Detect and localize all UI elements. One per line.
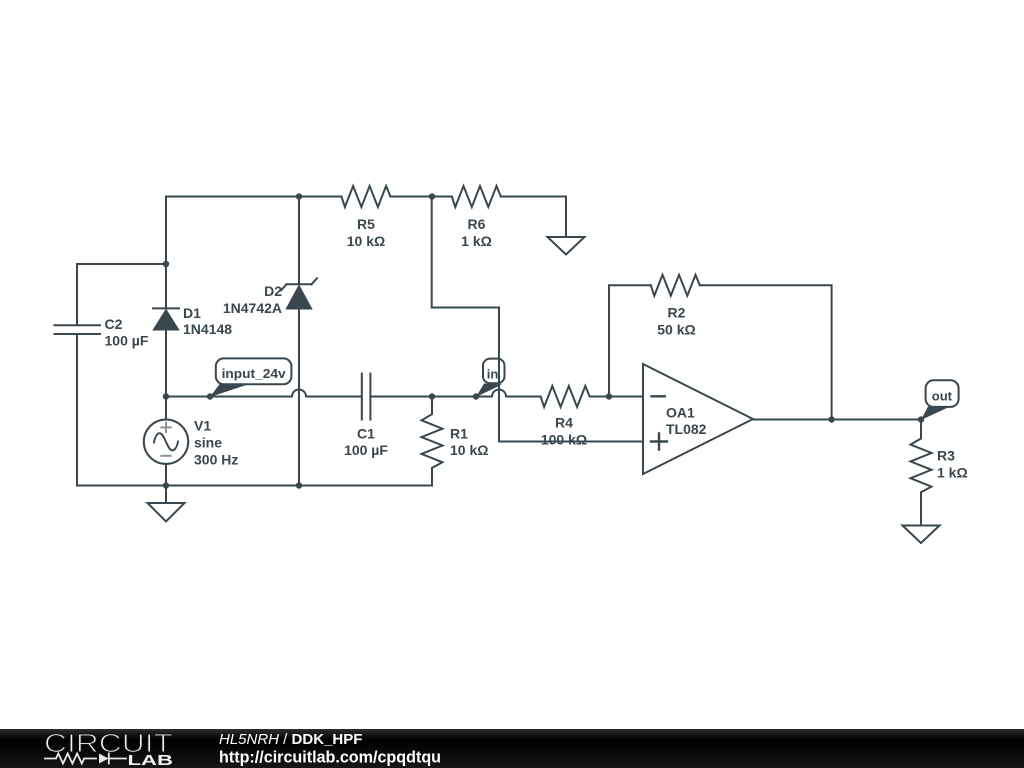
resistor R2 bbox=[651, 275, 700, 338]
svg-text:1N4148: 1N4148 bbox=[183, 321, 232, 337]
svg-text:input_24v: input_24v bbox=[222, 366, 287, 381]
resistor R1 bbox=[422, 397, 489, 486]
wire top rail from D1 branch to R5 bbox=[166, 196, 341, 198]
svg-text:10 kΩ: 10 kΩ bbox=[450, 442, 488, 458]
svg-text:R2: R2 bbox=[668, 305, 686, 321]
capacitor C1 bbox=[344, 374, 388, 459]
resistor R3 bbox=[911, 420, 968, 526]
wire feedback right side down to output bbox=[700, 285, 831, 419]
svg-text:in: in bbox=[487, 366, 499, 381]
svg-text:sine: sine bbox=[194, 435, 222, 451]
footer banner bbox=[0, 729, 1024, 768]
svg-text:300 Hz: 300 Hz bbox=[194, 452, 238, 468]
svg-text:R6: R6 bbox=[468, 216, 486, 232]
wire C2 branch horizontal bbox=[77, 264, 166, 325]
ground under R3 bbox=[903, 526, 940, 544]
svg-text:D1: D1 bbox=[183, 305, 201, 321]
svg-text:D2: D2 bbox=[264, 283, 282, 299]
zener diode D2 bbox=[223, 278, 317, 316]
svg-text:C1: C1 bbox=[357, 426, 375, 442]
wire C2 branch lower bbox=[76, 335, 78, 486]
wire from R6 to ground stub bbox=[501, 197, 566, 238]
node in flag bbox=[476, 359, 505, 397]
wire jog from R5/R6 junction down to op-amp plus input bbox=[432, 197, 643, 442]
svg-text:C2: C2 bbox=[105, 316, 123, 332]
wire op-amp output bbox=[753, 419, 921, 421]
diode D1 bbox=[153, 305, 232, 337]
voltage source V1 bbox=[144, 397, 239, 486]
resistor R6 bbox=[452, 186, 501, 249]
svg-text:100 kΩ: 100 kΩ bbox=[541, 432, 587, 448]
svg-text:100 µF: 100 µF bbox=[344, 442, 388, 458]
svg-text:http://circuitlab.com/cpqdtqu: http://circuitlab.com/cpqdtqu bbox=[219, 749, 441, 767]
wire mid rail C1 to hop bbox=[370, 390, 540, 397]
wire bottom rail bbox=[77, 485, 432, 487]
ground under R6 bbox=[548, 237, 585, 255]
resistor R5 bbox=[341, 186, 390, 249]
svg-text:1 kΩ: 1 kΩ bbox=[937, 465, 968, 481]
svg-text:10 kΩ: 10 kΩ bbox=[347, 233, 385, 249]
svg-text:R1: R1 bbox=[450, 426, 468, 442]
wire D1 branch lower to mid rail bbox=[165, 330, 167, 397]
svg-text:R4: R4 bbox=[555, 415, 573, 431]
svg-text:V1: V1 bbox=[194, 418, 211, 434]
svg-text:R5: R5 bbox=[357, 216, 375, 232]
ground under V1 bbox=[148, 486, 185, 522]
svg-text:100 µF: 100 µF bbox=[105, 333, 149, 349]
svg-text:out: out bbox=[932, 388, 953, 403]
svg-text:TL082: TL082 bbox=[666, 421, 707, 437]
svg-text:OA1: OA1 bbox=[666, 405, 695, 421]
wire D2 branch lower bbox=[298, 309, 300, 486]
svg-text:1N4742A: 1N4742A bbox=[223, 300, 282, 316]
resistor R4 bbox=[541, 386, 590, 448]
svg-text:LAB: LAB bbox=[128, 752, 174, 768]
op-amp OA1 bbox=[643, 364, 753, 474]
wire between R5 and R6 bbox=[390, 196, 451, 198]
node out flag bbox=[921, 380, 959, 420]
node input_24v flag bbox=[210, 358, 291, 397]
capacitor C2 bbox=[55, 316, 149, 349]
svg-text:1 kΩ: 1 kΩ bbox=[461, 233, 492, 249]
logo resistor-diode glyph bbox=[45, 754, 126, 764]
wire mid rail with hops over D2 and in-branch bbox=[166, 390, 362, 397]
wire R4 to op-amp minus input bbox=[590, 396, 643, 398]
svg-text:R3: R3 bbox=[937, 448, 955, 464]
wire D2 branch upper bbox=[298, 197, 300, 285]
svg-text:HL5NRH / DDK_HPF: HL5NRH / DDK_HPF bbox=[219, 731, 362, 748]
svg-text:50 kΩ: 50 kΩ bbox=[657, 322, 695, 338]
wire left vertical D1 branch upper bbox=[165, 197, 167, 307]
wire feedback tap up from minus input bbox=[609, 285, 651, 396]
